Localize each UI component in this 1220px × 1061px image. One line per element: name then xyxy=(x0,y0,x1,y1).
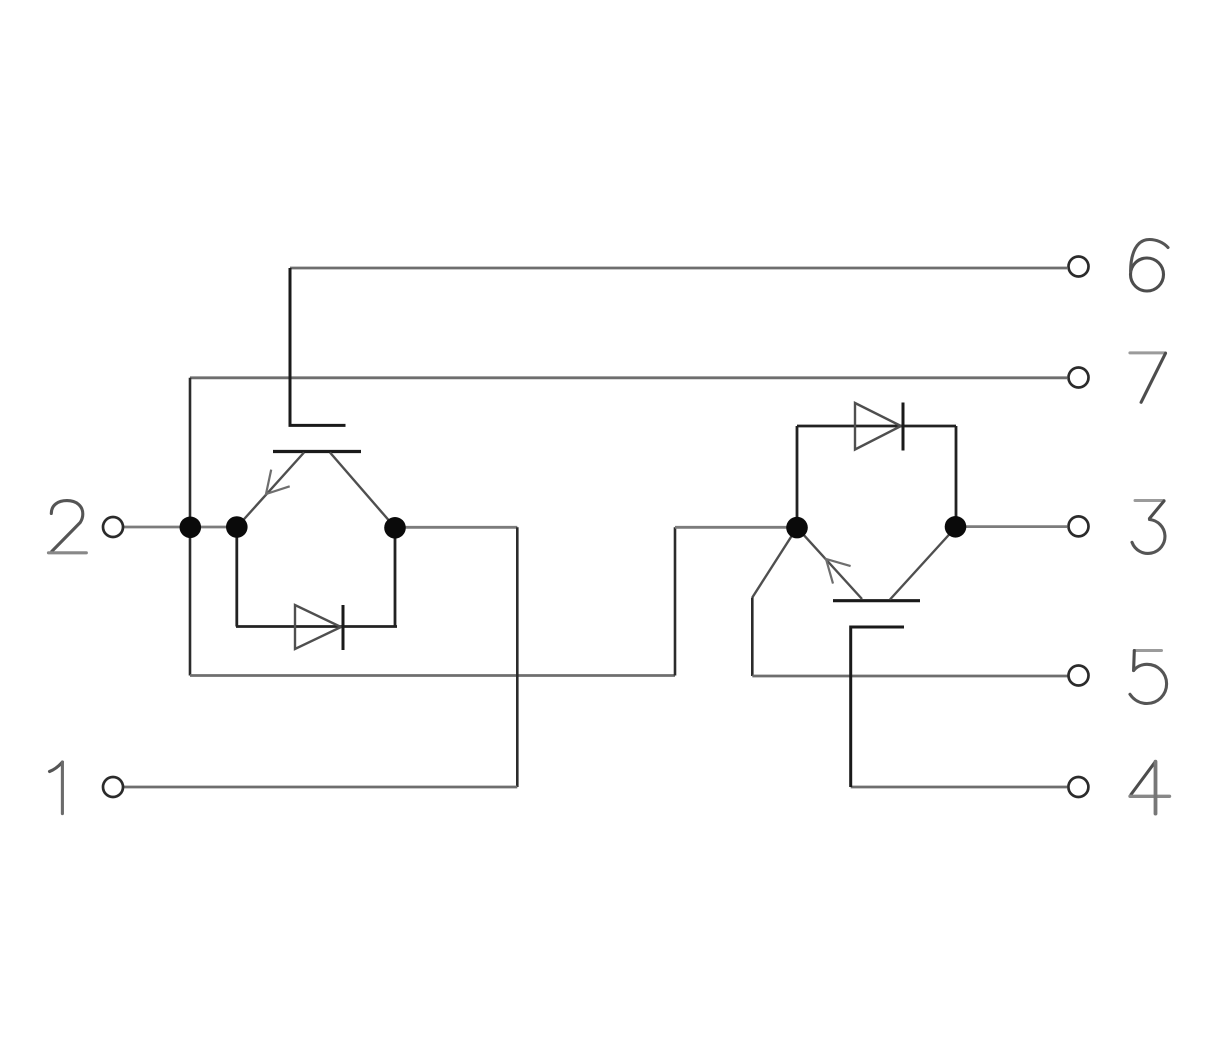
junction dot node left bus xyxy=(180,517,202,539)
wire pin 2 (terminal 2 to emitter node of Q1) xyxy=(124,526,237,529)
wire pin 7 horizontal (terminal 7 to left vertical bus) xyxy=(190,376,1067,379)
wire y=527 into left node of Q2 xyxy=(675,526,797,529)
pin label 7 xyxy=(1130,353,1166,402)
diode D2 right vertical xyxy=(955,426,958,527)
wire pin 4 horizontal (gate of Q2 to terminal 4) xyxy=(851,786,1067,789)
wire pin 3 (right node of Q2 to terminal 3) xyxy=(956,525,1067,528)
junction dot emitter node Q1 xyxy=(226,516,248,538)
terminal circle pin 6 xyxy=(1069,257,1089,277)
terminal circle pin 5 xyxy=(1069,666,1089,686)
pin label 4 xyxy=(1130,762,1170,814)
transistor Q1 gate lead and gate bar xyxy=(290,268,346,425)
wire pin 6 horizontal (gate of Q1 to terminal 6) xyxy=(290,267,1067,270)
transistor Q2 collector diagonal xyxy=(890,527,956,600)
junction dot emitter node Q2 xyxy=(786,517,808,539)
transistor Q2 emitter arrow xyxy=(826,559,851,584)
transistor Q1 channel bar xyxy=(273,450,361,453)
terminal circle pin 7 xyxy=(1069,368,1089,388)
wire pin 5 diagonal from emitter node of Q2 xyxy=(752,528,797,598)
diode D1 right vertical xyxy=(394,528,397,627)
transistor Q1 emitter diagonal xyxy=(237,453,304,528)
pin label 1 xyxy=(50,762,63,814)
transistor Q1 collector diagonal xyxy=(330,453,395,528)
transistor Q2 gate bar and gate lead xyxy=(851,627,904,787)
terminal circle pin 3 xyxy=(1069,516,1089,536)
junction dot collector node Q2 xyxy=(945,516,967,538)
wire vertical x=517 (pin 1 net) xyxy=(516,527,519,787)
transistor Q2 channel bar xyxy=(833,599,920,602)
diode D2 left vertical xyxy=(796,426,799,528)
wire vertical bus x=190 (pin 7 net down to lower run) xyxy=(189,378,192,676)
diode D2 baseline xyxy=(797,425,956,428)
pin label 5 xyxy=(1130,651,1167,704)
diode D2 triangle xyxy=(855,403,901,450)
diode D1 baseline xyxy=(236,625,397,628)
wire pin 1 horizontal (terminal 1) xyxy=(124,786,517,789)
pin label 3 xyxy=(1132,501,1165,554)
pin label 2 xyxy=(49,501,87,553)
diode D2 cathode bar xyxy=(902,403,905,451)
diode D1 triangle xyxy=(295,605,341,649)
terminal circle pin 2 xyxy=(103,517,123,537)
terminal circle pin 4 xyxy=(1068,777,1088,797)
transistor Q2 emitter diagonal xyxy=(797,528,862,599)
wire pin 5 vertical x=752 xyxy=(751,598,754,677)
pin label 6 xyxy=(1131,240,1169,292)
junction dot collector node Q1 xyxy=(384,517,406,539)
diode D1 cathode bar xyxy=(342,605,345,650)
wire collector node Q1 to x=517 xyxy=(395,526,517,529)
wire vertical x=675 (pin 7 net up to emitter of Q2) xyxy=(674,527,677,675)
terminal circle pin 1 xyxy=(103,777,123,797)
diode D1 left vertical xyxy=(235,527,238,627)
wire lower run y=675 (pin 7 net, left part) xyxy=(190,674,675,677)
transistor Q1 emitter arrow xyxy=(266,470,290,494)
wire pin 5 horizontal (to terminal 5) xyxy=(752,675,1067,678)
